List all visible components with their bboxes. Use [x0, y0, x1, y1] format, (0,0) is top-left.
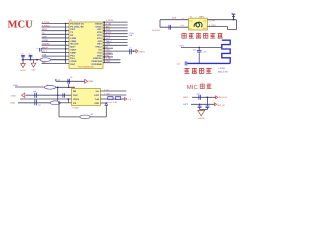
svg-text:1MHz: 1MHz	[199, 15, 205, 18]
svg-text:C1.0: C1.0	[181, 24, 185, 27]
net A_GND	[207, 26, 227, 28]
IC U2 right wires	[103, 21, 128, 23]
svg-text:MCLKD: MCLKD	[70, 43, 78, 46]
loop wire	[58, 103, 60, 117]
svg-text:VCH: VCH	[97, 34, 102, 37]
svg-text:TX: TX	[70, 31, 73, 34]
IC U2 right pin rail	[103, 22, 105, 63]
cap C14 on left row	[39, 48, 41, 52]
svg-text:P0.1/SCL-B0: P0.1/SCL-B0	[70, 25, 84, 28]
svg-text:K1B: K1B	[106, 49, 111, 52]
analog ground rail	[22, 59, 66, 61]
svg-text:VO-1: VO-1	[42, 50, 48, 53]
ground AGND1	[198, 110, 205, 115]
svg-text:P2.0: P2.0	[97, 37, 102, 40]
IC U2 left wires	[42, 22, 70, 24]
ground GND	[33, 60, 35, 64]
svg-text:C16: C16	[57, 78, 60, 81]
svg-text:VDD: VDD	[97, 54, 102, 57]
svg-text:VDD5: VDD5	[73, 98, 80, 101]
crystal loop wires	[160, 19, 189, 21]
GND1 port	[136, 50, 138, 53]
svg-text:A2-1T 3.3B: A2-1T 3.3B	[108, 101, 118, 104]
svg-text:GND1: GND1	[139, 50, 145, 53]
cap C18	[34, 93, 36, 98]
svg-text:A06B: A06B	[70, 40, 76, 43]
svg-text:AN7: AN7	[97, 28, 102, 31]
svg-text:1_B5: 1_B5	[106, 57, 112, 60]
svg-text:1_A5: 1_A5	[104, 88, 108, 91]
meander antenna	[222, 40, 230, 63]
svg-text:OSCB: OSCB	[95, 22, 102, 25]
svg-text:MIC2: MIC2	[183, 103, 189, 106]
svg-text:VUSB: VUSB	[42, 39, 48, 42]
svg-text:ANT1: ANT1	[180, 44, 185, 47]
svg-text:RST: RST	[106, 37, 111, 40]
svg-text:10: 10	[36, 47, 38, 50]
svg-text:GND: GND	[88, 80, 93, 83]
net 1_LNA	[207, 19, 236, 21]
svg-text:P04 SQ8048-24S: P04 SQ8048-24S	[78, 65, 94, 68]
svg-text:LX2B: LX2B	[70, 37, 76, 40]
title zhupin jingzhen dianlu	[182, 33, 187, 38]
svg-text:DA1: DA1	[70, 57, 75, 60]
svg-text:C11: C11	[21, 52, 24, 55]
svg-text:DVP: DVP	[73, 94, 78, 97]
svg-text:C12: C12	[28, 52, 31, 55]
svg-text:GND: GND	[106, 60, 111, 63]
svg-text:USB+: USB+	[70, 51, 77, 54]
svg-text:USB-: USB-	[42, 35, 47, 38]
svg-text:C+03 1uF: C+03 1uF	[152, 29, 161, 32]
filter F2	[116, 97, 121, 100]
svg-text:AGND1: AGND1	[198, 117, 205, 120]
antenna icon	[233, 14, 235, 19]
svg-text:GND/PA: GND/PA	[93, 57, 102, 60]
svg-text:P0.2: P0.2	[70, 28, 75, 31]
antenna feed wire	[181, 46, 222, 48]
svg-text:1_LNA: 1_LNA	[209, 19, 216, 22]
svg-text:GND2: GND2	[106, 51, 113, 54]
svg-text:C5B: C5B	[106, 43, 111, 46]
IC U2 body	[69, 22, 103, 69]
svg-text:CS: CS	[73, 102, 77, 105]
svg-text:C38: C38	[193, 49, 196, 52]
cap C19	[62, 93, 64, 97]
svg-text:CGEPWM: CGEPWM	[91, 60, 102, 63]
svg-text:A.TX0d: A.TX0d	[42, 21, 50, 24]
svg-text:AGND: AGND	[20, 69, 26, 72]
title tianxian dianlu	[184, 68, 189, 73]
svg-text:VCC1: VCC1	[106, 31, 113, 34]
svg-text:CS: CS	[99, 49, 103, 52]
IC U2 left pin rail	[65, 23, 67, 63]
cap C24 on GND1 row	[129, 49, 131, 54]
ground AGND	[22, 60, 24, 64]
VDD arrow up	[105, 103, 108, 105]
cap C16	[67, 79, 69, 84]
svg-text:GND: GND	[32, 68, 37, 71]
resistor R7	[80, 115, 90, 119]
crystal Y1 body	[189, 18, 208, 30]
wire VSS net	[56, 80, 85, 82]
U3 row4 wire	[100, 102, 107, 104]
svg-text:Y_1B5: Y_1B5	[104, 92, 110, 95]
IC U3 right wires	[100, 90, 126, 92]
wire to U3	[68, 84, 70, 88]
svg-text:MIC1: MIC1	[183, 96, 189, 99]
svg-text:VO1R: VO1R	[70, 60, 77, 63]
mid net	[20, 98, 72, 100]
cap C22	[198, 95, 200, 100]
svg-text:VDD: VDD	[94, 102, 99, 105]
svg-text:RST: RST	[97, 43, 102, 46]
svg-text:1_UD: 1_UD	[106, 22, 112, 25]
svg-text:LDO: LDO	[94, 94, 99, 97]
svg-text:+ A0S1: + A0S1	[218, 67, 226, 70]
cap C11	[22, 55, 24, 60]
svg-text:KEY1: KEY1	[42, 28, 48, 31]
svg-text:P0.5: P0.5	[70, 54, 75, 57]
cap C17	[34, 100, 36, 106]
IC U3 body	[72, 88, 101, 105]
svg-text:MIC-P: MIC-P	[42, 46, 49, 49]
svg-text:MODE1: MODE1	[42, 43, 50, 46]
junction dots	[22, 59, 24, 61]
svg-text:TM0.2: TM0.2	[95, 46, 102, 49]
resistor R5	[44, 85, 55, 89]
svg-text:MIC+: MIC+	[70, 46, 76, 49]
resistor R6	[50, 101, 60, 105]
svg-text:1.1: 1.1	[182, 17, 184, 20]
antenna shunt wire	[198, 47, 200, 50]
cap C23	[199, 104, 201, 106]
svg-text:100K: 100K	[172, 17, 177, 20]
svg-text:GND: GND	[11, 101, 16, 104]
cap C24	[206, 97, 208, 106]
svg-text:GA1-LK1: GA1-LK1	[219, 96, 228, 99]
svg-text:RX: RX	[70, 34, 74, 37]
GND port arrow	[85, 79, 88, 83]
cap C12	[30, 55, 32, 60]
svg-text:MIC_IN: MIC_IN	[217, 104, 225, 107]
svg-text:S-198C: S-198C	[72, 106, 79, 109]
svg-text:104: 104	[38, 103, 41, 106]
svg-text:P0.0/SDA-D1: P0.0/SDA-D1	[70, 22, 84, 25]
svg-text:VOUT: VOUT	[70, 49, 77, 52]
corner loop	[236, 20, 238, 30]
svg-text:MIC: MIC	[187, 84, 199, 91]
svg-text:104: 104	[196, 92, 199, 95]
svg-text:MCU: MCU	[8, 20, 34, 31]
svg-text:TxB: TxB	[95, 98, 100, 101]
svg-text:A_GND: A_GND	[209, 24, 216, 27]
svg-text:C1B: C1B	[42, 54, 47, 57]
svg-text:GND1: GND1	[95, 25, 102, 28]
svg-text:TM0.2: TM0.2	[106, 40, 113, 43]
svg-text:SB: SB	[73, 90, 77, 93]
branch wire	[57, 87, 59, 103]
crystal coil symbol	[194, 22, 202, 27]
svg-text:A-MIC: A-MIC	[11, 95, 17, 98]
svg-text:3_DK14: 3_DK14	[106, 19, 115, 22]
svg-text:C18: C18	[33, 90, 36, 93]
cap C19b	[168, 25, 170, 30]
svg-text:VIn: VIn	[95, 90, 99, 93]
svg-text:DAC: DAC	[70, 63, 75, 66]
svg-text:104: 104	[177, 63, 180, 66]
svg-text:868_2.4G: 868_2.4G	[218, 71, 228, 74]
svg-text:VCB: VCB	[97, 31, 102, 34]
filter F1	[108, 97, 113, 100]
antenna ground run	[187, 62, 230, 64]
mic ground rail	[200, 109, 208, 111]
svg-text:A.RX0d: A.RX0d	[42, 24, 50, 27]
resistor R3	[40, 58, 50, 62]
